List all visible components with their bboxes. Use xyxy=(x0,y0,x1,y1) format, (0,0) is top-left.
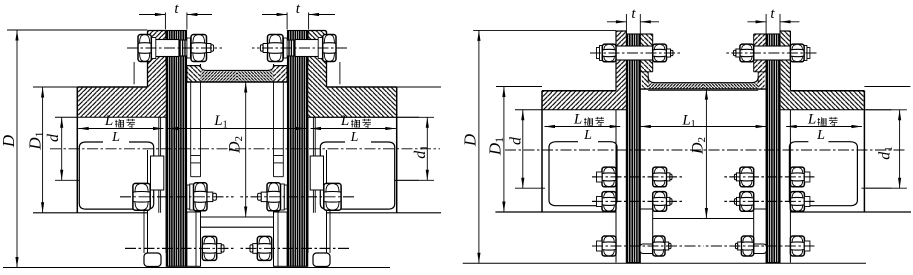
dimension d (bore, vertical) xyxy=(61,117,63,180)
dimension D (vertical) xyxy=(16,30,18,268)
top bolt centerline xyxy=(590,52,682,54)
hub flange hatch xyxy=(616,31,626,110)
svg-text:d: d xyxy=(45,133,62,142)
t dimension (pack thickness) extension lines + arrows xyxy=(164,13,166,30)
svg-text:L: L xyxy=(104,113,113,129)
hub outline xyxy=(541,91,543,212)
diaphragm pack xyxy=(626,34,640,263)
top bolt row: centerline xyxy=(127,47,222,49)
right half of left diagram (mirror image) xyxy=(237,13,441,267)
svg-text:D: D xyxy=(0,134,18,148)
top bolt right hex nut xyxy=(191,35,207,62)
top bolt shank xyxy=(616,46,653,60)
overall top extension line (D) xyxy=(7,29,148,31)
washer edge under left nut xyxy=(133,62,135,84)
row A bolt tip xyxy=(207,192,213,202)
L-tuijian dimension line xyxy=(545,126,621,128)
diaphragm pack xyxy=(166,31,186,267)
right half of right diagram (mirror image) xyxy=(703,14,911,263)
top bolt left hex xyxy=(602,44,616,62)
top bolt shank xyxy=(151,40,179,57)
hub body section hatch (upper) xyxy=(542,91,616,110)
svg-text:L: L xyxy=(816,128,825,143)
dimension d1 xyxy=(899,110,901,188)
svg-text:d: d xyxy=(508,136,525,145)
top bolt left tips xyxy=(597,48,600,59)
dimension d xyxy=(522,110,524,188)
dimension d1 (right bore, vertical) xyxy=(426,117,428,180)
bolt row A centerline xyxy=(120,196,234,198)
top bolt right tip xyxy=(667,49,671,57)
dimension D xyxy=(478,30,480,263)
dimension D2 xyxy=(705,89,707,218)
bottom baseline / D extension xyxy=(3,267,390,269)
flange foot xyxy=(144,253,161,267)
sleeve flange plate (lower, external) xyxy=(187,212,201,266)
top bolt thread zone xyxy=(179,40,191,56)
sleeve end flange (upper, hatched) xyxy=(187,66,201,82)
top bolt left hex nut xyxy=(138,35,151,62)
bolt row 3 centerline xyxy=(592,245,703,247)
svg-text:L: L xyxy=(350,130,359,145)
row B bolt tip xyxy=(217,244,222,254)
dimension D1 xyxy=(503,87,505,213)
sleeve recess + wall (upper) xyxy=(201,70,238,82)
top bolt washer strips xyxy=(187,38,191,58)
svg-text:L: L xyxy=(807,112,816,128)
svg-text:L: L xyxy=(111,130,120,145)
row A washer plates xyxy=(187,185,190,209)
shaft in bore (external view) xyxy=(549,142,617,206)
hub outline xyxy=(76,87,78,213)
hub body section hatch (upper half) xyxy=(77,87,166,117)
svg-text:L: L xyxy=(573,112,582,128)
bottom baseline (D ext) xyxy=(463,262,866,264)
dimension D2 (sleeve inner, vertical) xyxy=(245,82,247,217)
row 3 hexes + tips xyxy=(602,236,616,256)
hub flange hatch xyxy=(148,31,167,88)
L1 dimension line (half) xyxy=(168,128,237,130)
overall top extension (D) xyxy=(473,29,616,31)
flange outer edge line (lower) xyxy=(143,211,145,253)
bolt row 2 centerline xyxy=(592,200,682,202)
sleeve lower (external view) xyxy=(648,218,703,220)
row B right hex nut xyxy=(202,236,216,260)
bolt row B centerline xyxy=(125,247,234,249)
hub right face lines xyxy=(158,117,160,213)
svg-text:L: L xyxy=(583,128,592,143)
top bolt threaded tip xyxy=(207,44,211,53)
svg-text:L: L xyxy=(340,113,349,129)
dimension D1 (vertical) xyxy=(42,87,44,213)
row 1 hexes + tips xyxy=(602,167,616,187)
washer plate at flange face (top bolt) xyxy=(151,38,156,59)
svg-text:D: D xyxy=(461,133,480,147)
sleeve flange (hatched) xyxy=(640,34,652,72)
row A left hex nut xyxy=(133,183,150,210)
bolt row 1 centerline xyxy=(592,176,682,178)
sleeve lower lines (external view) xyxy=(201,216,237,218)
L-tuijian dimension line xyxy=(78,128,163,130)
flange outline xyxy=(148,31,167,33)
row 2 hexes + tips xyxy=(602,192,616,212)
LEFT DIAGRAM: half-coupling geometry (left half, mirrored for right) xyxy=(33,13,237,267)
row A right hex nut xyxy=(194,183,208,211)
top bolt right hex xyxy=(653,44,667,62)
axis centerline xyxy=(50,148,440,150)
t dimension extension + arrows xyxy=(625,14,627,36)
square spacer washer on flange face (row A) xyxy=(151,156,164,190)
L1 dimension line (half) xyxy=(640,126,703,128)
shaft in bore (external view, rounded outline) with gap for L label xyxy=(79,142,153,209)
RIGHT DIAGRAM: half geometry (left half, mirrored for right) xyxy=(495,14,703,263)
sleeve flange ring edge (interior) xyxy=(190,82,192,177)
axis centerline xyxy=(505,149,905,151)
sleeve recess + wall (upper) xyxy=(648,83,703,89)
flange outline xyxy=(616,30,626,32)
